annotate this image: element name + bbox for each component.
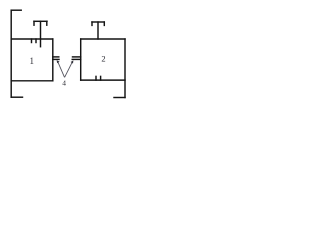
wire left frame bottom arm bbox=[11, 96, 22, 98]
block 2 bottom tick b bbox=[100, 76, 102, 80]
leader line right arm of label 4 bbox=[65, 62, 73, 77]
T symbol left: bar bbox=[34, 20, 47, 22]
T symbol left: stem bbox=[40, 21, 42, 46]
block 1 top edge bbox=[11, 38, 53, 40]
T symbol left: left serif bbox=[33, 21, 35, 25]
block 2 right edge / right frame vertical bbox=[124, 39, 126, 98]
arrowhead left leader bbox=[57, 60, 60, 63]
block 2 top edge bbox=[81, 38, 125, 40]
stub pair right lower bbox=[72, 58, 81, 60]
T symbol right: right serif bbox=[103, 22, 105, 25]
block 2 bottom edge bbox=[81, 79, 125, 81]
T symbol right: left serif bbox=[91, 22, 93, 25]
stub pair left lower bbox=[53, 58, 59, 60]
block 2 bottom tick a bbox=[95, 76, 97, 80]
block 1 right edge bbox=[52, 39, 54, 81]
block 1 bottom edge bbox=[11, 80, 53, 82]
stub pair right upper bbox=[73, 56, 81, 58]
T symbol left: right serif bbox=[46, 21, 48, 25]
arrowhead right leader bbox=[71, 60, 74, 63]
block 2 left edge bbox=[80, 39, 82, 80]
svg-text:1: 1 bbox=[30, 56, 35, 66]
block 1 top tick b bbox=[35, 39, 37, 43]
T symbol right: stem bbox=[97, 22, 99, 39]
wire left frame vertical bbox=[10, 10, 12, 97]
wire left frame top arm bbox=[11, 9, 21, 11]
leader line left arm of label 4 bbox=[58, 62, 65, 78]
svg-text:2: 2 bbox=[101, 54, 105, 64]
T symbol right: bar bbox=[92, 21, 104, 23]
block 1 top tick a bbox=[31, 39, 33, 43]
svg-text:4: 4 bbox=[62, 79, 66, 88]
wire right frame bottom arm bbox=[114, 97, 125, 99]
stub pair left upper bbox=[53, 56, 59, 58]
